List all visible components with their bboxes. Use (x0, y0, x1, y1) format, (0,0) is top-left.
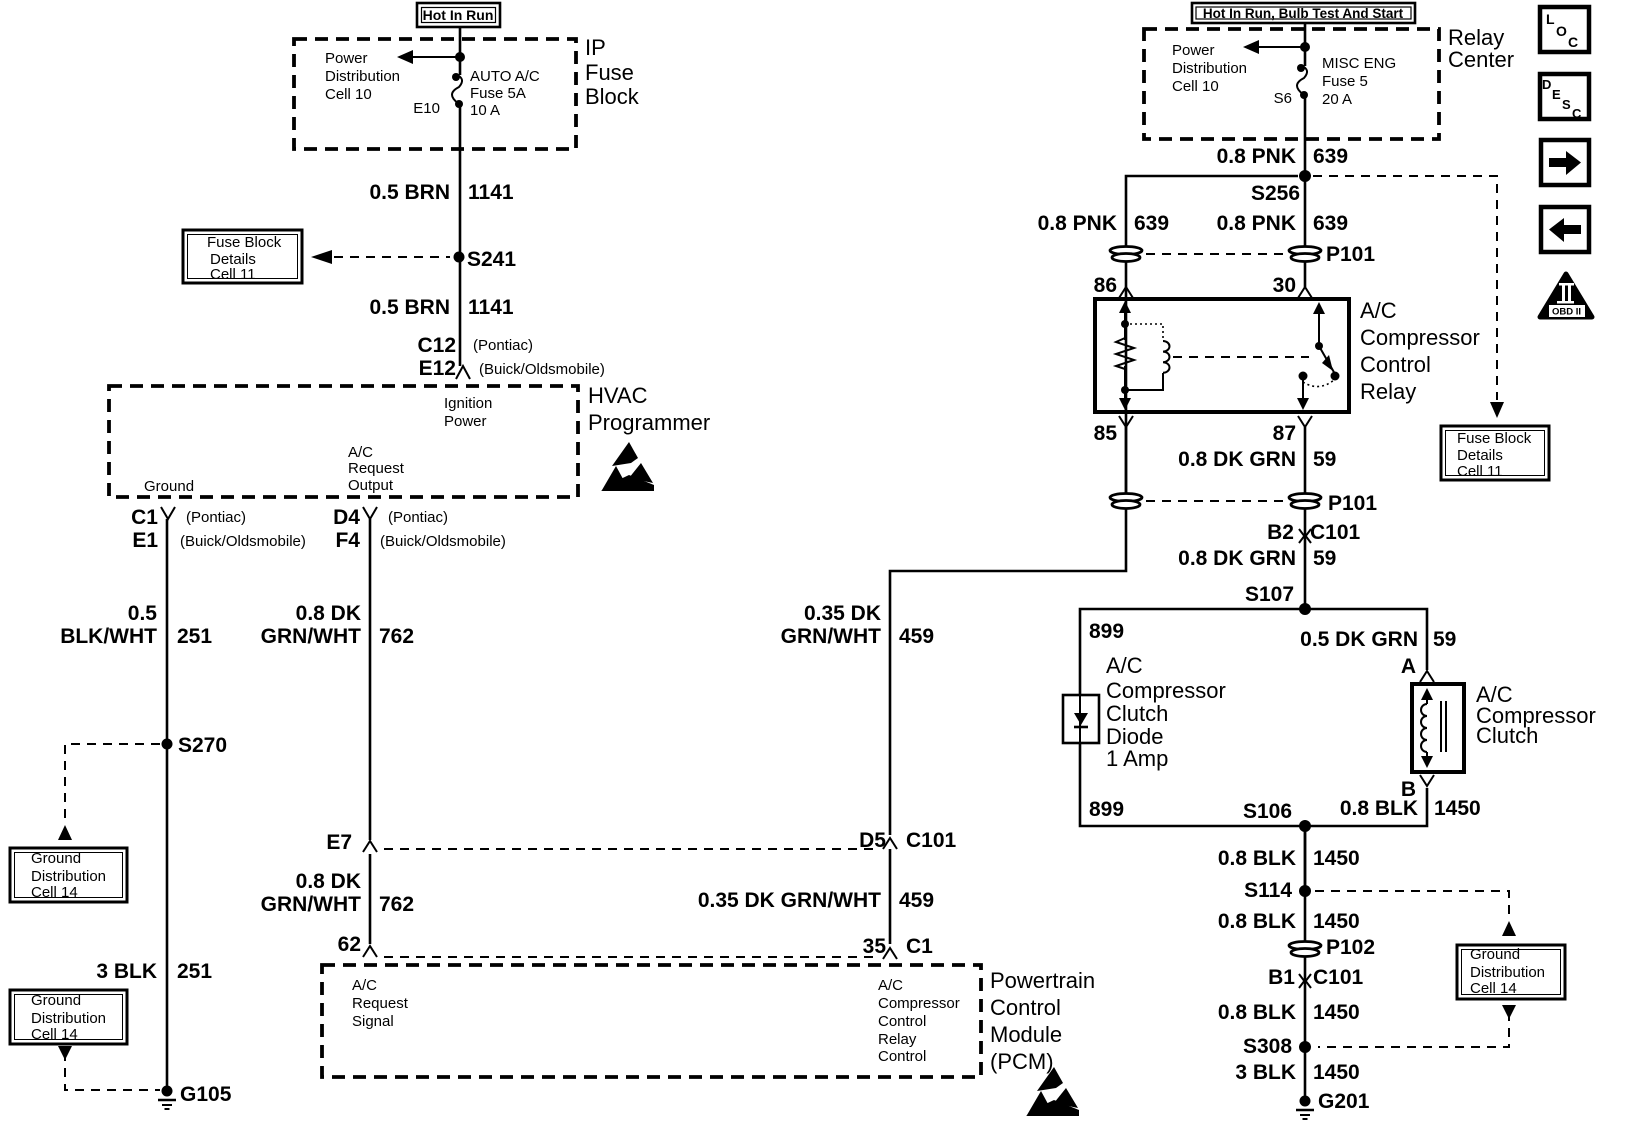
svg-text:GRN/WHT: GRN/WHT (261, 625, 361, 648)
svg-text:459: 459 (899, 625, 934, 648)
pin D4/F4 labels (333, 506, 506, 552)
svg-text:Powertrain: Powertrain (990, 968, 1095, 993)
svg-text:0.8 DK: 0.8 DK (296, 602, 361, 625)
svg-text:Ground: Ground (1470, 946, 1520, 963)
fuse AUTO A/C 10A (452, 57, 463, 185)
svg-text:0.8 DK GRN: 0.8 DK GRN (1178, 547, 1296, 570)
relay center dashed box (1144, 29, 1439, 139)
svg-text:BLK/WHT: BLK/WHT (60, 625, 157, 648)
dashed mechanical link coil to switch (1173, 356, 1309, 358)
pin C12 (Pontiac) (417, 334, 533, 357)
dashed arrow S241 to Fuse Block Details (311, 250, 450, 264)
svg-text:Cell 11: Cell 11 (210, 266, 256, 283)
pin 86 (1094, 274, 1133, 298)
svg-text:0.5 BRN: 0.5 BRN (369, 181, 450, 204)
svg-text:251: 251 (177, 960, 212, 983)
arrow to Power Distribution (397, 50, 460, 64)
svg-text:Hot In Run: Hot In Run (423, 7, 494, 23)
svg-text:Control: Control (878, 1013, 926, 1030)
pin 85 (1094, 416, 1133, 445)
dashed link ground box right to S308 (1318, 1005, 1516, 1047)
svg-text:899: 899 (1089, 620, 1124, 643)
clutch coil internals (1421, 688, 1446, 768)
wire down to S241 (459, 185, 462, 366)
svg-text:D: D (1542, 77, 1551, 92)
svg-text:(Buick/Oldsmobile): (Buick/Oldsmobile) (479, 361, 605, 378)
svg-text:0.8 DK: 0.8 DK (296, 870, 361, 893)
svg-text:1450: 1450 (1313, 847, 1360, 870)
svg-text:GRN/WHT: GRN/WHT (781, 625, 881, 648)
svg-text:C12: C12 (417, 334, 456, 357)
wire label 0.8 PNK 639 (right branch) (1217, 212, 1348, 235)
svg-text:S114: S114 (1244, 879, 1292, 902)
svg-text:G201: G201 (1318, 1090, 1370, 1113)
svg-text:E12: E12 (419, 357, 456, 380)
wire D5 down to 35 (889, 849, 892, 944)
node junction at fuse top (455, 52, 465, 62)
svg-text:Clutch: Clutch (1476, 723, 1538, 748)
svg-text:A/C: A/C (878, 977, 903, 994)
svg-text:OBD II: OBD II (1552, 307, 1581, 318)
svg-text:Distribution: Distribution (1172, 60, 1247, 77)
branch wire S256 to left leg (1126, 176, 1298, 493)
svg-text:C1: C1 (906, 935, 933, 958)
label A/C Compressor Clutch (1476, 682, 1596, 748)
IP fuse block dashed box (294, 39, 576, 149)
svg-text:251: 251 (177, 625, 212, 648)
svg-text:(PCM): (PCM) (990, 1049, 1054, 1074)
svg-text:Fuse Block: Fuse Block (1457, 430, 1532, 447)
splice S270 (162, 734, 228, 757)
box Ground Distribution Cell 14 (upper) (10, 848, 127, 902)
svg-text:Module: Module (990, 1022, 1062, 1047)
svg-text:Power: Power (1172, 42, 1215, 59)
svg-text:0.8 PNK: 0.8 PNK (1038, 212, 1117, 235)
wire E7 down to 62 (369, 854, 372, 944)
dashed line between P101 row2 (1146, 500, 1286, 502)
svg-text:Hot In Run, Bulb Test And Star: Hot In Run, Bulb Test And Start (1203, 6, 1404, 21)
svg-text:0.35 DK GRN/WHT: 0.35 DK GRN/WHT (698, 889, 881, 912)
ESD symbol PCM (1026, 1067, 1079, 1116)
svg-text:P102: P102 (1326, 936, 1375, 959)
connector B2 C101 (1267, 521, 1360, 544)
svg-text:E10: E10 (413, 100, 440, 117)
svg-text:Power: Power (325, 50, 368, 67)
svg-text:Relay: Relay (878, 1031, 917, 1048)
svg-text:HVAC: HVAC (588, 383, 648, 408)
wire label 0.8 DK GRN/WHT 762 (upper) (261, 602, 414, 648)
relay box (1095, 299, 1349, 412)
svg-text:Compressor: Compressor (878, 995, 960, 1012)
box Ground Distribution Cell 14 (lower) (10, 990, 127, 1044)
svg-text:C: C (1568, 34, 1578, 50)
svg-text:O: O (1556, 23, 1567, 39)
relay switch contact to pin 87 (1297, 372, 1334, 411)
svg-text:0.8 BLK: 0.8 BLK (1340, 797, 1418, 820)
PCM dashed box (322, 965, 981, 1077)
svg-text:B1: B1 (1268, 966, 1295, 989)
svg-text:(Pontiac): (Pontiac) (388, 509, 448, 526)
svg-text:E7: E7 (326, 831, 352, 854)
svg-text:Distribution: Distribution (325, 68, 400, 85)
svg-text:C: C (1572, 106, 1582, 121)
svg-text:Distribution: Distribution (31, 1010, 106, 1027)
label AUTO A/C Fuse 5A 10 A (470, 68, 540, 119)
ESD symbol HVAC (601, 442, 654, 491)
svg-text:E1: E1 (132, 529, 158, 552)
wire S256 down right leg (1304, 176, 1307, 287)
wire D4 down to E7 (369, 519, 372, 840)
svg-text:59: 59 (1313, 448, 1336, 471)
svg-text:59: 59 (1313, 547, 1336, 570)
svg-text:(Pontiac): (Pontiac) (186, 509, 246, 526)
label IP Fuse Block (585, 35, 640, 109)
svg-text:Fuse 5A: Fuse 5A (470, 85, 526, 102)
text Power Distribution Cell 10 (right) (1172, 42, 1247, 95)
pin 30 (1273, 274, 1312, 298)
wire 85 down to grommet (1125, 427, 1128, 493)
svg-text:D5: D5 (859, 829, 886, 852)
svg-text:62: 62 (338, 933, 361, 956)
svg-text:S241: S241 (467, 248, 516, 271)
svg-text:Fuse 5: Fuse 5 (1322, 73, 1368, 90)
svg-text:A: A (1401, 655, 1416, 678)
label A/C Compressor Clutch Diode 1 Amp (1106, 653, 1226, 771)
svg-text:86: 86 (1094, 274, 1117, 297)
wire C1 down to G105 (166, 519, 169, 1091)
svg-text:S: S (1562, 97, 1571, 112)
svg-text:Ground: Ground (144, 478, 194, 495)
svg-text:A/C: A/C (1106, 653, 1143, 678)
wire 87 down to grommet (1304, 427, 1307, 493)
connector E7 (326, 831, 377, 854)
svg-text:1450: 1450 (1313, 910, 1360, 933)
header box Hot In Run Bulb Test And Start (1192, 3, 1415, 23)
text A/C Compressor Control Relay Control (878, 977, 960, 1065)
node junction at fuse S6 top (1300, 42, 1310, 52)
box Fuse Block Details Cell 11 (right) (1441, 426, 1549, 480)
text A/C Request Signal (352, 977, 409, 1030)
svg-text:A/C: A/C (348, 444, 373, 461)
svg-text:S308: S308 (1243, 1035, 1292, 1058)
wire label 0.8 DK GRN 59 (below B2) (1178, 547, 1336, 570)
grommet P101 row1 left (1110, 247, 1142, 262)
button previous arrow (1541, 207, 1589, 252)
svg-text:1141: 1141 (468, 181, 514, 204)
dashed link lower ground box to G105 (58, 1046, 160, 1090)
text Power Distribution Cell 10 (325, 50, 400, 103)
splice S256 (1251, 170, 1311, 205)
svg-text:(Pontiac): (Pontiac) (473, 337, 533, 354)
wire label 0.8 DK GRN/WHT 762 (lower) (261, 870, 414, 916)
pin A (1401, 655, 1434, 682)
wire label 0.5 BLK/WHT 251 (60, 602, 212, 648)
text Ignition Power (444, 395, 492, 430)
svg-text:0.5: 0.5 (128, 602, 158, 625)
box Ground Distribution Cell 14 (right) (1457, 945, 1565, 999)
svg-text:S106: S106 (1243, 800, 1292, 823)
HVAC programmer dashed box (109, 386, 578, 497)
wire S106 down to G201 (1304, 826, 1307, 1101)
wire from relay pin 85 branch down to PCM pin 35 (890, 509, 1126, 835)
box Fuse Block Details Cell 11 (183, 230, 302, 283)
ground G201 (1296, 1090, 1370, 1119)
svg-text:Cell 11: Cell 11 (1457, 463, 1503, 480)
svg-text:Ignition: Ignition (444, 395, 492, 412)
splice S107 (1245, 583, 1311, 615)
svg-text:639: 639 (1134, 212, 1169, 235)
svg-text:Programmer: Programmer (588, 410, 710, 435)
svg-text:87: 87 (1273, 422, 1296, 445)
dashed link S256 to fuse block details (1313, 176, 1504, 418)
svg-text:30: 30 (1273, 274, 1296, 297)
connector D5 C101 (859, 829, 956, 852)
svg-text:D4: D4 (333, 506, 360, 529)
svg-text:F4: F4 (335, 529, 360, 552)
svg-text:0.8 BLK: 0.8 BLK (1218, 910, 1296, 933)
svg-text:GRN/WHT: GRN/WHT (261, 893, 361, 916)
svg-text:C101: C101 (906, 829, 957, 852)
svg-text:1450: 1450 (1313, 1061, 1360, 1084)
svg-text:0.8 PNK: 0.8 PNK (1217, 145, 1296, 168)
svg-text:MISC ENG: MISC ENG (1322, 55, 1396, 72)
svg-text:S107: S107 (1245, 583, 1294, 606)
svg-text:85: 85 (1094, 422, 1118, 445)
pin 87 (1273, 416, 1312, 445)
diode symbol (1074, 695, 1088, 743)
svg-text:0.8 BLK: 0.8 BLK (1218, 847, 1296, 870)
relay coil arrow to pin 85 (1119, 390, 1131, 410)
svg-text:899: 899 (1089, 798, 1124, 821)
splice S106 (1243, 800, 1311, 832)
svg-text:Distribution: Distribution (31, 868, 106, 885)
wire label 0.8 PNK 639 (above S256) (1217, 145, 1348, 168)
grommet P101 row1 right (1289, 243, 1375, 266)
svg-text:3 BLK: 3 BLK (1235, 1061, 1296, 1084)
svg-text:Control: Control (1360, 352, 1431, 377)
svg-text:IP: IP (585, 35, 606, 60)
wire label 0.8 BLK 1450 (clutch B) (1340, 797, 1481, 820)
wire label 0.8 DK GRN 59 (above P101) (1178, 448, 1336, 471)
label MISC ENG Fuse 5 20 A (1322, 55, 1396, 108)
button next arrow (1541, 140, 1589, 185)
header box Hot In Run (417, 3, 500, 27)
svg-text:Ground: Ground (31, 992, 81, 1009)
relay coil branch: arrow from pin 86 (1119, 301, 1131, 324)
arrow to Power Distribution (right) (1243, 40, 1305, 54)
wire label 0.5 DK GRN 59 (1300, 628, 1456, 651)
relay coil (parallel branch) (1125, 324, 1170, 390)
svg-text:(Buick/Oldsmobile): (Buick/Oldsmobile) (180, 533, 306, 550)
svg-text:A/C: A/C (1360, 298, 1397, 323)
diode component box (1063, 695, 1099, 743)
svg-text:Ground: Ground (31, 850, 81, 867)
wire label 0.8 BLK 1450 (above P102) (1218, 910, 1360, 933)
text A/C Request Output (348, 444, 405, 494)
svg-text:S6: S6 (1274, 90, 1292, 107)
svg-text:Cell 10: Cell 10 (325, 86, 372, 103)
connector B1 C101 (1268, 966, 1363, 989)
dashed link S270 to ground distribution (58, 744, 160, 840)
svg-text:Details: Details (1457, 447, 1503, 464)
label Powertrain Control Module (PCM) (990, 968, 1095, 1074)
svg-text:L: L (1546, 11, 1555, 27)
svg-text:1450: 1450 (1434, 797, 1481, 820)
svg-text:762: 762 (379, 625, 414, 648)
svg-text:Signal: Signal (352, 1013, 394, 1030)
svg-text:0.8 DK GRN: 0.8 DK GRN (1178, 448, 1296, 471)
svg-text:20 A: 20 A (1322, 91, 1352, 108)
splice S114 (1244, 879, 1311, 902)
fuse MISC ENG Fuse 5 20A (1297, 47, 1308, 176)
ground G105 (158, 1083, 232, 1109)
svg-text:Relay: Relay (1360, 379, 1416, 404)
svg-text:C101: C101 (1310, 521, 1361, 544)
svg-text:Control: Control (990, 995, 1061, 1020)
svg-text:Cell 14: Cell 14 (1470, 980, 1517, 997)
svg-text:Block: Block (585, 84, 640, 109)
svg-text:C101: C101 (1313, 966, 1364, 989)
wire label 0.8 BLK 1450 (below S106) (1218, 847, 1360, 870)
svg-text:3 BLK: 3 BLK (96, 960, 157, 983)
wire label 0.35 DK GRN/WHT 459 (upper two-line) (781, 602, 934, 648)
svg-text:1141: 1141 (468, 296, 514, 319)
wire label 0.5 BRN 1141 (upper) (369, 181, 513, 204)
svg-text:0.8 PNK: 0.8 PNK (1217, 212, 1296, 235)
svg-text:Request: Request (348, 460, 405, 477)
wire label 3 BLK 1450 (1235, 1061, 1359, 1084)
button LOC (1540, 7, 1589, 52)
svg-text:459: 459 (899, 889, 934, 912)
pin E12 (Buick/Oldsmobile) with connector chevron (419, 357, 605, 380)
svg-text:1 Amp: 1 Amp (1106, 746, 1168, 771)
svg-text:Cell 10: Cell 10 (1172, 78, 1219, 95)
svg-text:Power: Power (444, 413, 487, 430)
svg-text:Fuse Block: Fuse Block (207, 234, 282, 251)
grommet P101 row2 right (1289, 492, 1377, 515)
svg-text:1450: 1450 (1313, 1001, 1360, 1024)
dashed connector line 62 to 35 C1 (384, 956, 878, 958)
wire label 0.35 DK GRN/WHT 459 (698, 889, 934, 912)
svg-text:Request: Request (352, 995, 409, 1012)
wire from Hot In Run box to fuse block (459, 27, 462, 57)
dashed connector line E7 to D5 C101 (384, 848, 878, 850)
wire label 0.8 PNK 639 (left branch) (1038, 212, 1169, 235)
grommet P101 row2 left (1110, 494, 1142, 509)
svg-text:0.5 DK GRN: 0.5 DK GRN (1300, 628, 1418, 651)
svg-text:10 A: 10 A (470, 102, 500, 119)
svg-text:C1: C1 (131, 506, 158, 529)
splice S308 (1243, 1035, 1311, 1058)
wire label 0.8 BLK 1450 (below B1) (1218, 1001, 1360, 1024)
svg-text:639: 639 (1313, 145, 1348, 168)
dashed line between P101 row1 (1146, 253, 1286, 255)
wire label 3 BLK 251 (96, 960, 212, 983)
label Relay Center (1448, 25, 1514, 72)
svg-text:Distribution: Distribution (1470, 964, 1545, 981)
pin 62 into PCM (338, 933, 377, 957)
svg-text:A/C: A/C (352, 977, 377, 994)
svg-text:0.8 BLK: 0.8 BLK (1218, 1001, 1296, 1024)
wire 87 below grommet to S107 (1304, 509, 1307, 609)
grommet P102 (1289, 936, 1375, 959)
splice S241 (454, 248, 517, 271)
pin C1/E1 labels (131, 506, 306, 552)
OBD II symbol (1540, 274, 1592, 318)
svg-text:AUTO A/C: AUTO A/C (470, 68, 540, 85)
relay resistor (1116, 320, 1134, 394)
wire label 0.5 BRN 1141 (lower) (369, 296, 513, 319)
label HVAC Programmer (588, 383, 710, 435)
svg-text:Compressor: Compressor (1106, 678, 1226, 703)
svg-text:B2: B2 (1267, 521, 1294, 544)
svg-text:35: 35 (863, 935, 887, 958)
diode/clutch parallel loop wire (1080, 609, 1427, 891)
svg-text:Control: Control (878, 1048, 926, 1065)
svg-text:Compressor: Compressor (1360, 325, 1480, 350)
svg-text:S270: S270 (178, 734, 227, 757)
svg-text:Fuse: Fuse (585, 60, 634, 85)
svg-text:S256: S256 (1251, 182, 1300, 205)
svg-text:Output: Output (348, 477, 394, 494)
wire header to relay center (1304, 23, 1307, 47)
dashed link S114 to ground distribution right (1315, 891, 1516, 936)
svg-text:Center: Center (1448, 47, 1514, 72)
svg-text:P101: P101 (1328, 492, 1377, 515)
svg-text:G105: G105 (180, 1083, 232, 1106)
svg-text:(Buick/Oldsmobile): (Buick/Oldsmobile) (380, 533, 506, 550)
svg-text:E: E (1552, 87, 1561, 102)
svg-text:Cell 14: Cell 14 (31, 1026, 78, 1043)
svg-text:762: 762 (379, 893, 414, 916)
svg-text:0.5 BRN: 0.5 BRN (369, 296, 450, 319)
pin B (1401, 775, 1434, 801)
button DESC (1540, 74, 1589, 121)
svg-text:P101: P101 (1326, 243, 1375, 266)
A/C compressor clutch box (1412, 684, 1464, 772)
svg-text:Cell 14: Cell 14 (31, 884, 78, 901)
svg-text:Clutch: Clutch (1106, 701, 1168, 726)
svg-text:59: 59 (1433, 628, 1456, 651)
pin 35 C1 into PCM (863, 935, 934, 959)
svg-text:0.35 DK: 0.35 DK (804, 602, 881, 625)
relay switch from pin 30 (1313, 302, 1340, 381)
svg-text:639: 639 (1313, 212, 1348, 235)
label A/C Compressor Control Relay (1360, 298, 1480, 404)
